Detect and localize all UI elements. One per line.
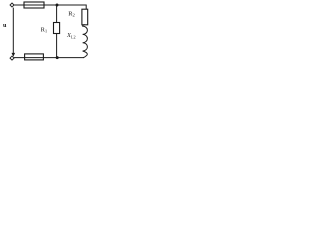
resistor R2 [82,9,88,25]
wire center branch upper (node A to R1) [56,5,58,23]
wire top-right (node A to corner) [57,5,87,9]
voltage arrow u shaft [12,8,14,54]
node B junction dot [56,56,59,59]
resistor (top, unlabeled) [24,2,44,8]
terminal top-left [10,3,14,7]
wire bottom-left (terminal to node B) [14,57,57,59]
wire top (terminal to node A) [14,4,57,6]
wire center branch lower (R1 to node B) [56,34,58,58]
svg-text:R1: R1 [41,26,48,33]
resistor R1 [54,23,60,34]
wire bottom-right (node B to coil tail) [57,57,84,59]
svg-text:u: u [3,22,7,29]
resistor (bottom, unlabeled) [25,54,44,60]
svg-text:R2: R2 [68,11,75,18]
terminal bottom-left [10,56,14,60]
inductor XL2 coil [83,25,88,58]
node A junction dot [56,4,59,7]
voltage arrow u head [12,53,16,57]
